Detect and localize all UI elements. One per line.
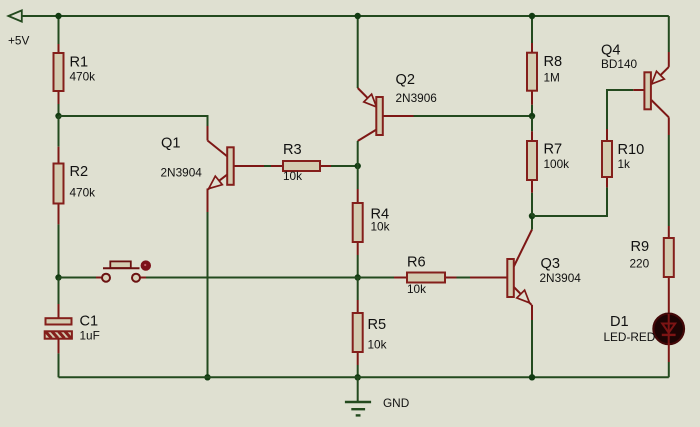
transistor Q3 <box>470 230 581 321</box>
svg-text:2N3904: 2N3904 <box>161 166 203 180</box>
wire C1 to ground rail <box>58 353 60 377</box>
LED D1 <box>604 314 685 345</box>
wire R8 to node C <box>531 105 533 116</box>
wire Q2 base to node C <box>414 115 533 117</box>
svg-text:+5V: +5V <box>8 33 29 47</box>
svg-text:R5: R5 <box>368 317 387 333</box>
node A junction <box>55 13 61 19</box>
node B junction <box>355 163 361 169</box>
wire Q2 emitter column <box>357 16 359 88</box>
svg-text:10k: 10k <box>407 282 426 296</box>
svg-text:R8: R8 <box>544 54 563 70</box>
svg-text:Q4: Q4 <box>601 42 620 58</box>
resistor R4 <box>353 166 390 255</box>
svg-text:GND: GND <box>383 396 409 410</box>
wire left column upper <box>58 16 60 44</box>
wire button row <box>59 277 97 279</box>
resistor R7 <box>527 116 569 193</box>
resistor R5 <box>353 278 387 366</box>
svg-text:2N3904: 2N3904 <box>540 271 582 285</box>
resistor R3 <box>271 142 331 183</box>
svg-text:Q2: Q2 <box>396 72 415 88</box>
push button <box>96 260 151 281</box>
wire R5 to ground rail <box>357 365 359 377</box>
transistor Q4 <box>601 42 669 135</box>
resistor R9 <box>630 226 674 313</box>
svg-text:LED-RED: LED-RED <box>604 330 656 344</box>
transistor Q1 <box>161 126 265 212</box>
wire top right corner <box>668 16 670 52</box>
resistor R8 <box>527 43 562 105</box>
svg-text:R6: R6 <box>407 254 426 270</box>
capacitor C1 <box>45 278 100 354</box>
svg-text:C1: C1 <box>80 314 99 330</box>
svg-text:1uF: 1uF <box>80 329 100 343</box>
transistor Q2 <box>358 72 438 141</box>
wire bottom ground rail <box>59 376 669 378</box>
svg-text:R10: R10 <box>618 142 645 158</box>
ground symbol <box>345 377 409 415</box>
wire Q3 collector to node E <box>531 216 533 230</box>
wire R4 to row5 <box>357 255 359 278</box>
wire R1 to node A <box>58 104 60 116</box>
svg-text:Q1: Q1 <box>161 135 180 151</box>
wire Q1 emitter to ground rail <box>207 212 209 377</box>
svg-text:R2: R2 <box>70 164 89 180</box>
wire D1 to ground rail <box>668 343 670 362</box>
wire Q2 collector to node B <box>357 141 359 166</box>
wire Q4 collector to R9 <box>668 135 670 226</box>
svg-text:D1: D1 <box>610 314 629 330</box>
wire R6 to Q3 base <box>457 277 471 279</box>
wire R7 to node E <box>531 193 533 216</box>
resistor R2 <box>54 116 96 224</box>
wire right column top <box>531 16 533 43</box>
wire R10 to Q4 base <box>607 90 633 129</box>
wire top rail <box>21 15 669 17</box>
wire node E to R10 <box>532 187 607 216</box>
svg-text:R3: R3 <box>283 142 302 158</box>
svg-text:100k: 100k <box>544 157 570 171</box>
resistor R10 <box>602 129 644 187</box>
svg-text:R9: R9 <box>631 239 650 255</box>
+5V power arrow <box>8 10 21 21</box>
wire button to node D <box>146 277 394 279</box>
svg-text:R1: R1 <box>70 54 89 70</box>
resistor R1 <box>54 44 96 104</box>
svg-text:220: 220 <box>630 257 650 271</box>
svg-text:1k: 1k <box>618 157 631 171</box>
wire Q3 emitter to ground rail <box>531 320 533 377</box>
svg-text:Q3: Q3 <box>541 256 560 272</box>
svg-text:R7: R7 <box>544 142 563 158</box>
resistor R6 <box>394 254 457 296</box>
wire R2 to button node <box>58 224 60 277</box>
svg-text:1M: 1M <box>544 71 560 85</box>
svg-text:470k: 470k <box>70 70 96 84</box>
svg-text:10k: 10k <box>368 337 387 351</box>
svg-text:10k: 10k <box>371 220 390 234</box>
wire Q1 base to R3 <box>264 165 271 167</box>
wire row2 left: node A to Q1 collector <box>59 116 208 128</box>
svg-text:10k: 10k <box>283 169 302 183</box>
svg-text:470k: 470k <box>70 186 96 200</box>
svg-text:BD140: BD140 <box>601 57 638 71</box>
wire R3 to node B <box>331 165 358 167</box>
node C junction <box>529 113 535 119</box>
svg-text:2N3906: 2N3906 <box>396 91 438 105</box>
